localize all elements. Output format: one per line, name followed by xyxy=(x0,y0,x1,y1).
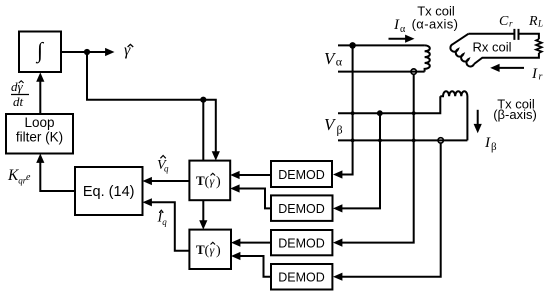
arrowhead v4 into DEMOD4 xyxy=(333,273,342,281)
arrowhead gamma output xyxy=(105,48,114,56)
junction mark v1 rail3 xyxy=(351,111,355,115)
arrowhead T2 into Eq14 xyxy=(143,198,152,206)
svg-text:DEMOD: DEMOD xyxy=(278,168,325,182)
capacitor Cr plates xyxy=(514,29,518,40)
wire DEMOD1 to T1 xyxy=(238,174,271,176)
Eq. (14) box xyxy=(75,167,143,215)
wire DEMOD2 to T1 xyxy=(238,189,271,209)
junction mark v1 rail4 xyxy=(351,139,355,143)
junction mark v2 rail4 xyxy=(378,139,382,143)
wire v4 to DEMOD4 xyxy=(341,143,441,277)
junction mark v3 rail4 xyxy=(412,139,416,143)
wire DEMOD4 to T2 xyxy=(239,256,271,277)
svg-text:γ: γ xyxy=(210,243,215,257)
T1 box xyxy=(189,161,230,201)
wire T1 to Eq14 xyxy=(150,180,189,182)
Rx coil loop outline xyxy=(468,34,539,64)
I alpha arrow line xyxy=(389,38,407,40)
svg-text:DEMOD: DEMOD xyxy=(278,271,325,285)
node circle beta coil tap xyxy=(438,138,443,143)
svg-text:dt: dt xyxy=(13,94,24,109)
wire v3 to DEMOD3 xyxy=(341,74,414,242)
svg-text:): ) xyxy=(216,175,221,190)
junction mark v3 rail3 xyxy=(412,111,416,115)
svg-text:Eq. (14): Eq. (14) xyxy=(83,184,135,200)
arrowhead I r xyxy=(490,64,499,72)
wire feedback gamma xyxy=(87,52,216,154)
svg-text:Rx coil: Rx coil xyxy=(472,40,511,55)
arrowhead v2 into DEMOD2 xyxy=(333,204,342,212)
svg-text:q: q xyxy=(164,164,169,174)
svg-text:L: L xyxy=(537,19,543,29)
DEMOD1 box xyxy=(271,161,332,187)
Tx coil beta winding xyxy=(440,91,467,140)
svg-text:γ: γ xyxy=(210,174,215,188)
I beta arrow line xyxy=(477,110,479,125)
svg-text:filter (K): filter (K) xyxy=(16,130,63,145)
arrowhead v1 into DEMOD1 xyxy=(333,170,342,178)
Rx coil winding scallops xyxy=(450,34,474,67)
svg-text:β: β xyxy=(337,123,343,137)
svg-text:I: I xyxy=(531,66,538,82)
wire rail Vb bottom xyxy=(338,139,467,141)
svg-text:α: α xyxy=(400,24,406,35)
svg-text:q: q xyxy=(162,217,167,227)
arrowhead D4 into T2 xyxy=(231,252,240,260)
node circle alpha coil tap xyxy=(411,69,416,74)
svg-text:DEMOD: DEMOD xyxy=(278,237,325,251)
svg-text:Loop: Loop xyxy=(24,115,54,130)
wire rail Va top xyxy=(338,44,425,46)
wire DEMOD3 to T2 xyxy=(239,242,271,244)
arrowhead D2 into T1 xyxy=(230,184,239,192)
arrowhead T1 into Eq14 xyxy=(143,177,152,185)
svg-text:(β-axis): (β-axis) xyxy=(493,107,537,122)
wire v1 to DEMOD1 xyxy=(341,45,353,174)
svg-text:r: r xyxy=(539,72,543,83)
wire gamma to T1 (upper segment) xyxy=(202,100,204,161)
DEMOD4 box xyxy=(271,264,332,290)
arrowhead into T2 top xyxy=(199,220,207,229)
wire rail Vb top xyxy=(338,96,440,113)
svg-text:I: I xyxy=(484,135,491,151)
I r arrow line xyxy=(498,67,524,69)
arrowhead D1 into T1 xyxy=(230,171,239,179)
wire T2 to Eq14 xyxy=(150,202,189,250)
node dot gamma branch xyxy=(200,97,206,103)
node dot Va rail xyxy=(349,42,356,49)
svg-text:R: R xyxy=(528,14,538,29)
wire v2 to DEMOD2 xyxy=(341,113,380,208)
arrowhead v3 into DEMOD3 xyxy=(333,239,342,247)
svg-text:): ) xyxy=(216,244,221,259)
wire Eq14 to loop filter xyxy=(40,161,75,191)
svg-text:r: r xyxy=(509,19,513,29)
DEMOD3 box xyxy=(271,230,332,255)
svg-text:C: C xyxy=(499,14,509,29)
node dot gamma output xyxy=(84,49,90,55)
svg-text:I: I xyxy=(393,17,400,33)
svg-text:K: K xyxy=(7,167,19,184)
wire T1 to T2 xyxy=(202,200,204,223)
svg-text:(α-axis): (α-axis) xyxy=(412,17,459,32)
DEMOD2 box xyxy=(271,195,333,221)
node dot Vb rail xyxy=(377,110,383,116)
arrowhead I beta xyxy=(474,124,482,133)
arrowhead into T1 top xyxy=(212,151,220,160)
wire loop filter to integrator xyxy=(39,80,41,114)
Tx coil alpha winding xyxy=(425,45,430,71)
resistor RL zigzag xyxy=(536,39,542,53)
arrowhead I alpha xyxy=(405,35,414,43)
wire integrator output xyxy=(61,51,106,53)
T2 box xyxy=(189,230,231,269)
arrowhead D3 into T2 xyxy=(231,239,240,247)
svg-text:β: β xyxy=(491,141,497,153)
svg-text:e: e xyxy=(26,172,31,183)
arrowhead into loop filter bottom xyxy=(36,154,44,163)
integrator U1 box xyxy=(19,32,61,73)
svg-text:DEMOD: DEMOD xyxy=(278,202,325,216)
arrowhead into integrator bottom xyxy=(36,72,44,81)
wire rail Va bottom xyxy=(338,71,425,73)
svg-text:α: α xyxy=(336,55,343,69)
loop filter box xyxy=(6,114,73,154)
